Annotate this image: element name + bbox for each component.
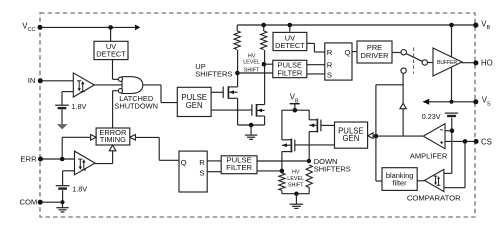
svg-text:SHUTDOWN: SHUTDOWN (114, 102, 158, 111)
svg-text:SHIFTERS: SHIFTERS (195, 70, 232, 79)
svg-text:0.23V: 0.23V (422, 112, 441, 121)
svg-text:COM: COM (20, 198, 38, 207)
svg-text:FILTER: FILTER (277, 68, 302, 77)
svg-text:Q: Q (345, 48, 351, 57)
svg-text:DETECT: DETECT (96, 50, 126, 59)
svg-text:HO: HO (481, 58, 493, 67)
svg-text:LEVEL: LEVEL (287, 176, 304, 182)
svg-text:Q: Q (181, 158, 187, 167)
svg-text:HV: HV (292, 170, 300, 176)
svg-text:TIMING: TIMING (100, 135, 126, 144)
svg-text:CS: CS (481, 137, 492, 146)
svg-text:R: R (327, 48, 333, 57)
svg-text:BUFFER: BUFFER (437, 60, 457, 66)
svg-text:DETECT: DETECT (275, 41, 305, 50)
svg-text:S: S (327, 70, 332, 79)
svg-text:1.8V: 1.8V (72, 185, 87, 194)
svg-text:ERR: ERR (20, 154, 37, 163)
svg-text:filter: filter (393, 179, 408, 188)
svg-text:LEVEL: LEVEL (243, 60, 260, 66)
svg-text:SHIFTERS: SHIFTERS (314, 165, 351, 174)
svg-text:GEN: GEN (186, 101, 203, 110)
svg-text:R: R (327, 61, 333, 70)
svg-text:SHIFT: SHIFT (288, 182, 304, 188)
svg-text:DRIVER: DRIVER (361, 51, 389, 60)
svg-text:AMPLIFER: AMPLIFER (410, 151, 448, 160)
svg-text:S: S (199, 168, 204, 177)
svg-text:FILTER: FILTER (226, 163, 252, 172)
svg-text:COMPARATOR: COMPARATOR (407, 194, 461, 203)
svg-text:1.8V: 1.8V (72, 102, 87, 111)
svg-text:R: R (199, 158, 205, 167)
svg-text:GEN: GEN (342, 134, 359, 143)
svg-text:HV: HV (248, 53, 256, 59)
svg-text:IN: IN (28, 76, 36, 85)
